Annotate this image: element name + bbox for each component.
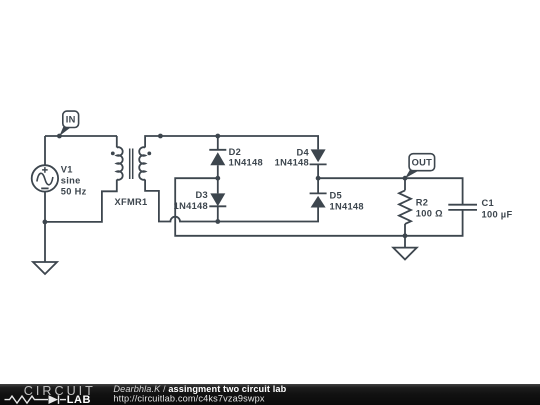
wire secondary top pin and rail to D4 <box>145 136 318 149</box>
wire D2 leads <box>217 136 219 150</box>
footer bar <box>0 384 540 405</box>
label D4 <box>275 147 310 167</box>
diode D2 <box>209 150 226 165</box>
wire primary bottom return <box>45 180 117 222</box>
wire V1 bottom lead to ground <box>44 192 46 262</box>
svg-text:OUT: OUT <box>412 157 433 167</box>
diode D5 <box>310 193 327 207</box>
label D2 <box>229 147 263 168</box>
wire R2 leads <box>404 178 406 190</box>
ground (V1) <box>33 262 57 274</box>
wire V1 top lead <box>44 136 46 165</box>
diode D4 <box>310 149 327 164</box>
wire primary top pin <box>116 136 118 148</box>
wire top-left rail V1 to primary <box>45 135 117 137</box>
svg-text:V1: V1 <box>61 164 73 174</box>
node junction dots <box>57 134 62 139</box>
capacitor C1 <box>448 205 477 210</box>
svg-text:D4: D4 <box>297 147 310 157</box>
footer logo resistor-diode squiggle <box>5 395 67 404</box>
svg-text:R2: R2 <box>416 198 428 208</box>
label R2 <box>416 198 443 219</box>
svg-text:XFMR1: XFMR1 <box>115 197 148 207</box>
transformer XFMR1 <box>117 147 145 180</box>
svg-text:D3: D3 <box>196 190 208 200</box>
svg-text:50 Hz: 50 Hz <box>61 186 87 196</box>
resistor R2 <box>399 190 411 224</box>
svg-text:1N4148: 1N4148 <box>275 158 309 168</box>
voltage source V1 <box>32 165 58 191</box>
svg-text:sine: sine <box>61 175 81 185</box>
wire DC-plus rail from D4/D5 junction to C1 <box>318 178 463 205</box>
svg-text:http://circuitlab.com/c4ks7vza: http://circuitlab.com/c4ks7vza9swpx <box>113 394 265 404</box>
svg-text:100 Ω: 100 Ω <box>416 209 443 219</box>
svg-text:D5: D5 <box>330 191 342 201</box>
svg-text:C1: C1 <box>482 198 494 208</box>
label D5 <box>330 191 364 212</box>
svg-text:IN: IN <box>66 115 76 125</box>
svg-text:LAB: LAB <box>67 394 91 405</box>
wire D3 leads <box>217 178 219 193</box>
flag IN <box>59 111 78 136</box>
wire D5 lead <box>317 178 319 193</box>
label V1 <box>61 164 87 196</box>
label D3 <box>174 190 208 211</box>
svg-text:1N4148: 1N4148 <box>330 201 364 211</box>
svg-text:100 µF: 100 µF <box>482 210 513 220</box>
wire D4 lead <box>317 164 319 178</box>
wire secondary bottom to node B rail (with hop) <box>145 180 318 222</box>
svg-text:1N4148: 1N4148 <box>229 158 263 168</box>
svg-text:1N4148: 1N4148 <box>174 201 208 211</box>
transformer phase dots <box>111 152 115 156</box>
flag OUT <box>405 154 435 179</box>
label C1 <box>482 198 513 219</box>
svg-text:D2: D2 <box>229 147 241 157</box>
diode D3 <box>209 193 226 206</box>
wire DC-minus from D2/D3 junction down and right rail <box>175 178 462 236</box>
ground (R2) <box>393 248 417 260</box>
